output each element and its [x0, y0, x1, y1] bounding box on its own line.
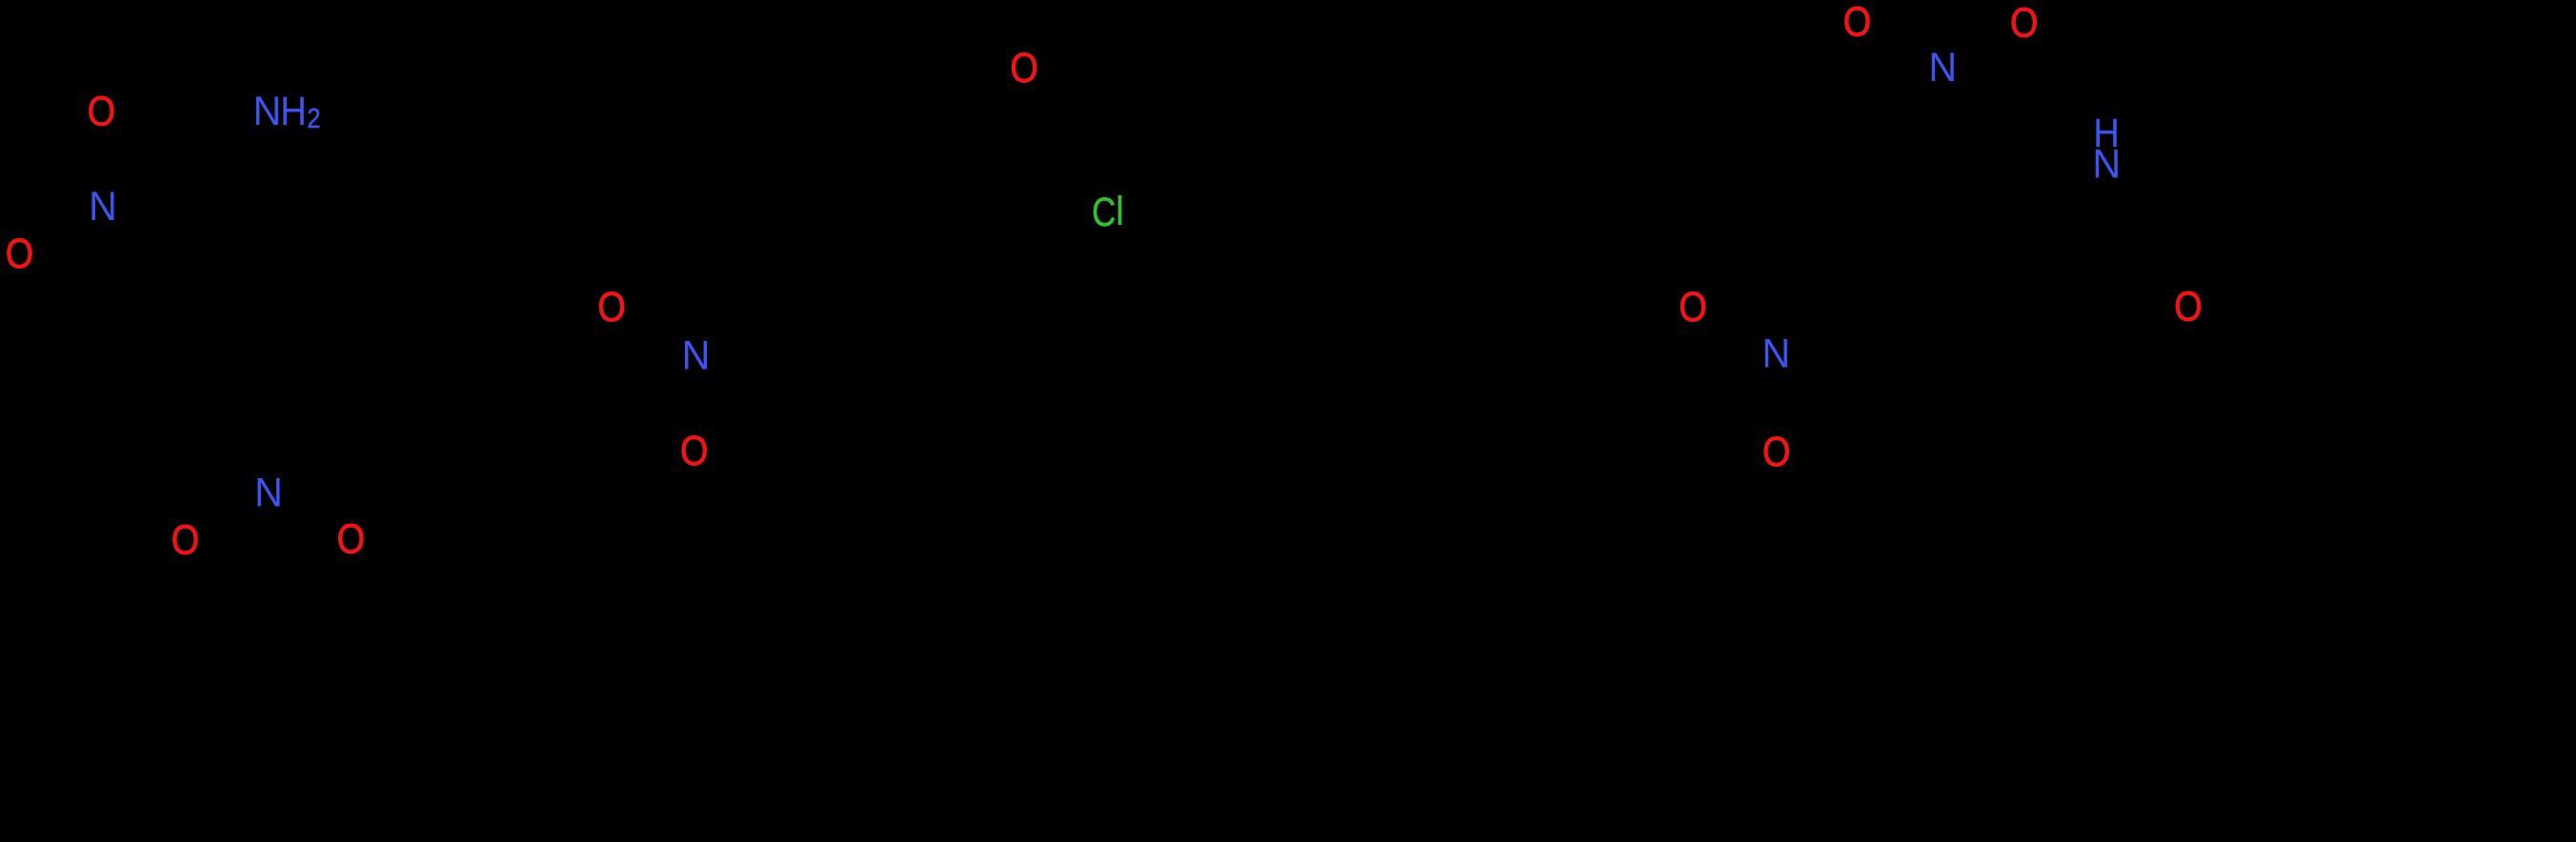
svg-text:N: N — [1928, 44, 1957, 90]
svg-text:2: 2 — [307, 103, 320, 134]
svg-text:N: N — [253, 88, 282, 133]
svg-text:O: O — [88, 88, 115, 134]
svg-text:O: O — [6, 231, 33, 277]
svg-text:O: O — [1010, 45, 1037, 91]
svg-text:N: N — [254, 470, 283, 515]
svg-text:O: O — [680, 427, 708, 473]
svg-text:O: O — [1762, 429, 1790, 475]
svg-text:N: N — [2092, 141, 2121, 187]
svg-text:O: O — [2010, 0, 2038, 46]
svg-text:O: O — [1679, 284, 1706, 331]
svg-text:O: O — [171, 516, 199, 563]
svg-text:O: O — [597, 284, 625, 331]
svg-text:C: C — [1092, 190, 1116, 235]
svg-text:H: H — [280, 88, 307, 133]
svg-text:N: N — [682, 332, 711, 378]
svg-text:O: O — [337, 515, 365, 562]
svg-text:O: O — [2174, 283, 2202, 330]
svg-text:O: O — [1843, 0, 1871, 45]
svg-text:l: l — [1116, 190, 1124, 234]
svg-text:N: N — [1762, 331, 1791, 376]
svg-text:N: N — [89, 184, 117, 230]
